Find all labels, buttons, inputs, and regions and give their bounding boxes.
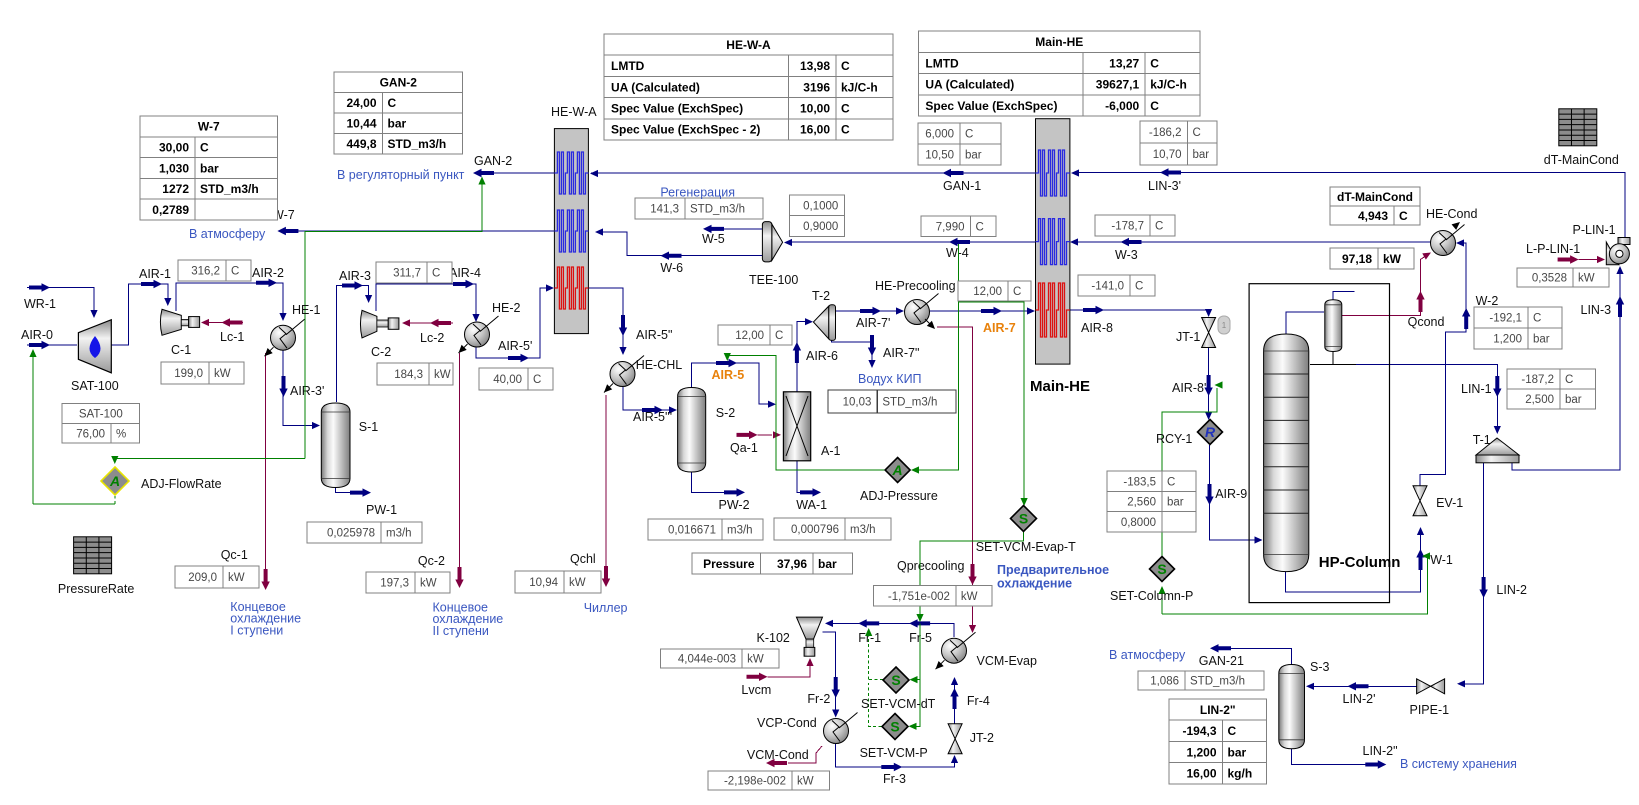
wire W-7 HE-W-A to atmosphere (287, 230, 554, 232)
table stream 12.00 C at precooling (958, 281, 1031, 301)
svg-text:4,044e-003: 4,044e-003 (678, 654, 736, 666)
table stream 311.7 C (376, 262, 452, 283)
svg-text:%: % (116, 428, 126, 440)
svg-text:C: C (1155, 221, 1163, 233)
svg-text:C: C (200, 141, 209, 155)
svg-text:C: C (965, 129, 973, 141)
tee TEE-100 (762, 222, 782, 262)
svg-text:S: S (1019, 511, 1028, 527)
wire W-2 EV-1 to HE-Cond (1420, 243, 1466, 487)
svg-text:LIN-2": LIN-2" (1200, 703, 1236, 717)
wire W-4 Main-HE to TEE-100 (786, 241, 1035, 243)
table stream -186.2 C 10.70 bar (1140, 121, 1217, 165)
svg-text:RCY-1: RCY-1 (1156, 432, 1192, 446)
table stream 316.2 C (178, 260, 251, 281)
svg-text:K-102: K-102 (757, 631, 790, 645)
table C-1 duty 199.0 kW (161, 362, 244, 384)
svg-text:L-P-LIN-1: L-P-LIN-1 (1526, 242, 1580, 256)
svg-text:PressureRate: PressureRate (58, 582, 134, 596)
table Qc-2 197.3 kW (366, 572, 450, 593)
svg-text:kJ/C-h: kJ/C-h (841, 80, 878, 94)
wire AIR-6 A-1 to T-2 (797, 322, 810, 392)
svg-text:WA-1: WA-1 (796, 498, 827, 512)
svg-text:1: 1 (1222, 321, 1227, 330)
table stream -178.7 C (1095, 215, 1175, 236)
energy stream Qc-1 from HE-1 (265, 353, 267, 572)
svg-text:HE-CHL: HE-CHL (636, 358, 683, 372)
svg-text:kW: kW (420, 578, 437, 590)
svg-text:AIR-5': AIR-5' (498, 339, 532, 353)
table regeneration 141.3 STD_m3/h (635, 198, 763, 219)
svg-text:16,00: 16,00 (1186, 767, 1216, 781)
svg-text:S-2: S-2 (716, 406, 736, 420)
adjust ADJ-Pressure (885, 458, 910, 483)
wire WR-1 into SAT-100 (27, 288, 94, 317)
svg-text:C: C (1150, 56, 1159, 70)
svg-text:dT-MainCond: dT-MainCond (1544, 153, 1619, 167)
svg-text:-194,3: -194,3 (1182, 724, 1216, 738)
svg-text:STD_m3/h: STD_m3/h (388, 137, 447, 151)
wire AIR-3 S-1 to C-2 (336, 286, 368, 403)
svg-text:AIR-7": AIR-7" (883, 346, 919, 360)
separator T-1 (1476, 438, 1519, 463)
svg-text:m3/h: m3/h (386, 527, 412, 539)
svg-text:C: C (1150, 99, 1159, 113)
evaporator VCM-Evap (942, 632, 976, 663)
svg-text:1,200: 1,200 (1186, 745, 1216, 759)
svg-text:0,9000: 0,9000 (803, 221, 838, 233)
column HP-Column box (1249, 284, 1389, 603)
svg-text:7,990: 7,990 (936, 221, 965, 233)
wire AIR-8-prime JT-1 to RCY-1 (1208, 348, 1210, 417)
table K-102 4.044e-003 kW (661, 649, 780, 668)
table Main-HE parameters (918, 31, 1200, 116)
svg-text:W-3: W-3 (1115, 248, 1138, 262)
svg-text:316,2: 316,2 (191, 266, 220, 278)
svg-text:TEE-100: TEE-100 (749, 273, 798, 287)
wire AIR-5-prime HE-2 to HE-W-A (476, 288, 551, 358)
signal SET-VCM-Evap-T connections (959, 302, 1024, 503)
signal ADJ-FlowRate to AIR-0 (32, 354, 34, 504)
table dT-MainCond 4.943 C (1330, 187, 1420, 225)
svg-text:AIR-3': AIR-3' (290, 384, 324, 398)
wire AIR-5 S-2 to A-1 (692, 363, 773, 404)
exchanger block Main-HE (1036, 119, 1070, 364)
svg-text:UA (Calculated): UA (Calculated) (925, 78, 1014, 92)
svg-text:AIR-9: AIR-9 (1215, 487, 1247, 501)
svg-text:I ступени: I ступени (230, 623, 283, 637)
table Qchl 10.94 kW (515, 571, 601, 593)
table HE-W-A parameters (604, 34, 893, 140)
svg-text:C: C (533, 374, 541, 386)
svg-text:13,27: 13,27 (1109, 56, 1139, 70)
svg-text:II ступени: II ступени (433, 624, 489, 638)
svg-text:Чиллер: Чиллер (584, 601, 628, 615)
svg-text:STD_m3/h: STD_m3/h (690, 204, 745, 216)
svg-text:-1,751e-002: -1,751e-002 (888, 591, 950, 603)
wire GAN-1 Main-HE to HE-W-A (591, 172, 1035, 174)
svg-text:C-2: C-2 (371, 345, 391, 359)
svg-text:SET-VCM-P: SET-VCM-P (860, 746, 928, 760)
svg-text:-192,1: -192,1 (1489, 313, 1522, 325)
svg-text:kW: kW (1383, 252, 1402, 266)
svg-text:C: C (976, 221, 984, 233)
svg-text:AIR-5''': AIR-5''' (633, 410, 672, 424)
svg-text:PW-2: PW-2 (719, 498, 750, 512)
table LIN-2-2prime (1169, 699, 1267, 784)
svg-text:kW: kW (214, 368, 231, 380)
svg-text:HE-W-A: HE-W-A (726, 38, 771, 52)
svg-text:C: C (841, 123, 850, 137)
svg-text:C: C (1565, 374, 1573, 386)
wire Fr VCM-Evap to K-102 (827, 623, 954, 637)
svg-text:AIR-4: AIR-4 (449, 266, 481, 280)
svg-text:W-5: W-5 (702, 232, 725, 246)
recycle RCY-1 (1198, 420, 1223, 445)
pump P-LIN-1 (1606, 238, 1630, 265)
svg-text:0,025978: 0,025978 (327, 527, 375, 539)
svg-text:kW: kW (961, 591, 978, 603)
table GAN-21 1.086 STD_m3/h (1138, 671, 1264, 690)
table WA-1 0.000796 m3/h (774, 518, 891, 540)
svg-text:40,00: 40,00 (493, 374, 522, 386)
wire LIN-3-prime P-LIN-1 to Main-HE (1073, 173, 1625, 241)
svg-text:W-2: W-2 (1476, 294, 1499, 308)
wire W-5 from TEE-100 (722, 228, 762, 230)
svg-text:STD_m3/h: STD_m3/h (882, 397, 937, 409)
svg-text:kW: kW (747, 654, 764, 666)
svg-text:-186,2: -186,2 (1149, 127, 1182, 139)
energy stream Qprecooling HE-Precooling to VCM-Evap (937, 327, 973, 628)
energy stream Lc-2 into C-2 (410, 322, 453, 324)
svg-text:STD_m3/h: STD_m3/h (200, 182, 259, 196)
svg-text:-187,2: -187,2 (1521, 374, 1554, 386)
svg-text:C: C (432, 268, 440, 280)
energy stream Qc-2 from HE-2 (459, 353, 461, 570)
svg-text:C: C (841, 102, 850, 116)
svg-text:VCP-Cond: VCP-Cond (757, 716, 817, 730)
adsorber A-1 (783, 392, 810, 461)
svg-text:LIN-2: LIN-2 (1496, 583, 1527, 597)
svg-text:W-4: W-4 (946, 246, 969, 260)
svg-text:-183,5: -183,5 (1123, 476, 1156, 488)
energy stream L-P-LIN-1 into P-LIN-1 (1579, 259, 1598, 261)
wire W-3 HE-Cond to Main-HE (1073, 241, 1431, 243)
wire AIR-5-2prime HE-W-A to HE-CHL (588, 288, 623, 352)
svg-text:kW: kW (569, 577, 586, 589)
wire AIR-7 HE-Precooling to Main-HE (930, 310, 1032, 312)
table P-LIN-1 0.3528 kW (1517, 268, 1609, 287)
svg-text:В атмосферу: В атмосферу (189, 227, 266, 241)
svg-text:AIR-5: AIR-5 (712, 368, 745, 382)
table stream 12.00 C at A-1 (718, 325, 792, 345)
wire Fr-2 K-102 to VCP-Cond (823, 632, 836, 715)
svg-text:kg/h: kg/h (1228, 767, 1253, 781)
signal SET-Column-P connections (1162, 556, 1427, 614)
heat exchanger HE-2 (465, 316, 499, 347)
wire PW-1 from S-1 (336, 488, 351, 493)
svg-text:S-3: S-3 (1310, 660, 1330, 674)
table W-2 -192.1 C 1.200 bar (1474, 307, 1562, 349)
table HE-Cond duty 97.18 kW (1330, 248, 1414, 269)
svg-text:HE-Precooling: HE-Precooling (875, 279, 956, 293)
svg-text:6,000: 6,000 (925, 129, 954, 141)
svg-text:HE-2: HE-2 (492, 301, 521, 315)
svg-text:В систему хранения: В систему хранения (1400, 757, 1517, 771)
svg-text:Qprecooling: Qprecooling (897, 559, 964, 573)
svg-text:HE-Cond: HE-Cond (1426, 207, 1477, 221)
svg-text:197,3: 197,3 (380, 578, 409, 590)
wire LIN-2-prime PIPE-1 to S-3 (1308, 685, 1416, 687)
svg-text:4,943: 4,943 (1358, 209, 1388, 223)
svg-text:12,00: 12,00 (735, 330, 764, 342)
table LIN-1 -187.2 C 2.500 bar (1507, 369, 1596, 409)
wire LIN-2 T-1 to PIPE-1 (1459, 463, 1484, 684)
svg-text:охлаждение: охлаждение (997, 577, 1072, 591)
svg-text:C: C (1399, 209, 1408, 223)
svg-text:C: C (1135, 281, 1143, 293)
svg-text:W-1: W-1 (1430, 553, 1453, 567)
svg-text:S-1: S-1 (359, 420, 379, 434)
svg-text:Qchl: Qchl (570, 552, 596, 566)
set SET-VCM-P (882, 714, 908, 740)
svg-text:SAT-100: SAT-100 (71, 379, 119, 393)
table W-7 (140, 116, 278, 220)
svg-text:AIR-0: AIR-0 (21, 328, 53, 342)
svg-text:A: A (892, 462, 903, 478)
svg-text:10,50: 10,50 (925, 150, 954, 162)
svg-text:39627,1: 39627,1 (1096, 78, 1140, 92)
svg-text:1,086: 1,086 (1150, 676, 1179, 688)
table C-2 duty 184.3 kW (377, 363, 453, 385)
wire HP-Column overhead to condenser (1286, 312, 1324, 337)
svg-text:ADJ-FlowRate: ADJ-FlowRate (141, 477, 222, 491)
cooler HE-Precooling (905, 294, 939, 325)
svg-text:kW: kW (797, 776, 814, 788)
wire condenser top stub (1333, 292, 1354, 301)
svg-text:AIR-5": AIR-5" (636, 328, 672, 342)
svg-text:24,00: 24,00 (346, 96, 376, 110)
svg-text:16,00: 16,00 (800, 123, 830, 137)
svg-text:PW-1: PW-1 (366, 503, 397, 517)
svg-text:76,00: 76,00 (76, 428, 105, 440)
datatable icon PressureRate (74, 537, 112, 574)
svg-text:HE-W-A: HE-W-A (551, 105, 597, 119)
svg-text:C: C (231, 266, 239, 278)
svg-text:WR-1: WR-1 (24, 297, 56, 311)
column HP-Column vessel (1264, 334, 1309, 572)
svg-text:ADJ-Pressure: ADJ-Pressure (860, 489, 938, 503)
wire GAN-2 from HE-W-A (492, 172, 554, 174)
svg-text:Spec Value (ExchSpec): Spec Value (ExchSpec) (925, 99, 1057, 113)
svg-text:P-LIN-1: P-LIN-1 (1573, 223, 1616, 237)
svg-text:199,0: 199,0 (174, 368, 203, 380)
svg-text:VCM-Evap: VCM-Evap (977, 654, 1037, 668)
wire LIN-2-2prime from S-3 to storage (1292, 749, 1367, 765)
svg-text:AIR-7': AIR-7' (856, 316, 890, 330)
svg-text:bar: bar (1193, 149, 1210, 161)
svg-text:AIR-8: AIR-8 (1081, 321, 1113, 335)
energy stream Qa-1 into A-1 (758, 434, 773, 436)
svg-text:LMTD: LMTD (611, 59, 645, 73)
svg-text:W-7: W-7 (198, 120, 220, 134)
valve JT-2 (948, 724, 962, 754)
wire AIR-1 SAT-100 to C-1 (111, 284, 168, 345)
svg-text:0,000796: 0,000796 (791, 524, 839, 536)
svg-text:LMTD: LMTD (925, 56, 959, 70)
svg-text:10,70: 10,70 (1153, 149, 1182, 161)
svg-text:C: C (1533, 313, 1541, 325)
wire condenser bottom black stub (1332, 352, 1334, 365)
svg-text:T-1: T-1 (1473, 433, 1491, 447)
svg-text:bar: bar (1533, 334, 1550, 346)
energy stream Qcond condenser to HE-Cond (1342, 255, 1427, 315)
wire LIN-3 T-1 to P-LIN-1 (1512, 269, 1620, 470)
adjust ADJ-FlowRate (101, 467, 129, 495)
svg-text:Предварительное: Предварительное (997, 563, 1109, 577)
svg-text:EV-1: EV-1 (1436, 496, 1463, 510)
svg-text:10,94: 10,94 (529, 577, 558, 589)
svg-text:В регуляторный пункт: В регуляторный пункт (337, 168, 465, 182)
svg-text:S: S (890, 719, 899, 735)
svg-text:12,00: 12,00 (973, 286, 1002, 298)
wire Fr-4 JT-2 to VCM-Evap (954, 680, 956, 724)
table VCM-Cond -2.198e-002 kW (708, 771, 829, 790)
table stream 40.00 C (479, 368, 553, 390)
svg-text:10,03: 10,03 (843, 397, 872, 409)
svg-text:GAN-21: GAN-21 (1199, 654, 1244, 668)
set SET-VCM-dT (883, 667, 909, 693)
exchanger block HE-W-A (554, 129, 588, 334)
svg-text:Lc-2: Lc-2 (420, 331, 444, 345)
svg-text:Fr-2: Fr-2 (807, 692, 830, 706)
signal SET-VCM-dT connections (911, 623, 920, 679)
svg-text:10,44: 10,44 (346, 117, 376, 131)
svg-text:Регенерация: Регенерация (660, 186, 735, 200)
svg-text:-141,0: -141,0 (1091, 281, 1124, 293)
wire AIR-3-prime HE-1 to S-1 (283, 350, 317, 426)
valve PIPE-1 (1417, 679, 1445, 694)
condenser drum inside HP-Column (1325, 300, 1342, 352)
compressor K-102 (796, 617, 822, 656)
svg-text:GAN-2: GAN-2 (474, 154, 512, 168)
svg-text:Pressure: Pressure (703, 557, 755, 571)
svg-text:LIN-3': LIN-3' (1148, 179, 1181, 193)
table stream -141.0 C (1078, 275, 1155, 296)
svg-text:AIR-1: AIR-1 (139, 267, 171, 281)
svg-text:PIPE-1: PIPE-1 (1410, 703, 1450, 717)
svg-text:10,00: 10,00 (800, 102, 830, 116)
svg-text:3196: 3196 (803, 80, 830, 94)
wire AIR-2 C-1 to HE-1 (176, 283, 283, 318)
svg-text:0,016671: 0,016671 (668, 525, 716, 537)
wire Fr-3 VCP-Cond to JT-2 (836, 744, 955, 767)
svg-text:В атмосферу: В атмосферу (1109, 648, 1186, 662)
chiller HE-CHL (610, 356, 644, 387)
svg-text:S: S (891, 672, 900, 688)
svg-text:1272: 1272 (162, 182, 189, 196)
svg-text:0,8000: 0,8000 (1121, 517, 1156, 529)
svg-text:UA (Calculated): UA (Calculated) (611, 80, 700, 94)
svg-text:Fr-5: Fr-5 (909, 631, 932, 645)
svg-text:C: C (1167, 476, 1175, 488)
svg-text:A-1: A-1 (821, 444, 841, 458)
svg-text:T-2: T-2 (812, 289, 830, 303)
compressor C-2 (360, 310, 398, 338)
svg-text:0,1000: 0,1000 (803, 200, 838, 212)
table PW-1 0.025978 m3/h (307, 522, 422, 543)
svg-text:bar: bar (1228, 745, 1247, 759)
svg-text:A: A (109, 473, 120, 489)
wire WA-1 from A-1 (797, 461, 800, 493)
svg-text:Qc-2: Qc-2 (418, 554, 445, 568)
svg-text:-2,198e-002: -2,198e-002 (724, 776, 786, 788)
svg-text:Qa-1: Qa-1 (730, 441, 758, 455)
svg-text:37,96: 37,96 (777, 557, 807, 571)
svg-text:kJ/C-h: kJ/C-h (1150, 78, 1187, 92)
energy stream Qchl from HE-CHL (605, 395, 607, 569)
wire GAN-21 from S-3 (1229, 648, 1292, 664)
svg-text:C-1: C-1 (171, 343, 191, 357)
svg-text:-178,7: -178,7 (1111, 221, 1144, 233)
svg-text:C: C (388, 96, 397, 110)
svg-text:JT-1: JT-1 (1176, 330, 1200, 344)
svg-text:Main-HE: Main-HE (1035, 35, 1083, 49)
table GAN-2 (334, 72, 463, 154)
svg-text:AIR-6: AIR-6 (806, 349, 838, 363)
table stream 6.000 C 10.50 bar (918, 123, 1001, 165)
svg-text:Водух КИП: Водух КИП (858, 372, 922, 386)
svg-text:S: S (1157, 561, 1166, 577)
svg-text:bar: bar (388, 117, 407, 131)
separator S-1 (321, 403, 350, 488)
table PW-2 0.016671 m3/h (648, 519, 763, 540)
svg-text:bar: bar (818, 557, 837, 571)
tee T-2 (813, 305, 835, 341)
logical capsule near JT-1 (1218, 316, 1230, 334)
svg-text:0,2789: 0,2789 (152, 203, 189, 217)
svg-text:m3/h: m3/h (727, 525, 753, 537)
svg-text:Lc-1: Lc-1 (220, 330, 244, 344)
table Qprecooling -1.751e-002 kW (873, 586, 992, 607)
separator S-2 (678, 388, 706, 473)
svg-text:SET-VCM-dT: SET-VCM-dT (861, 697, 936, 711)
wire AIR-5-3prime HE-CHL to S-2 (623, 387, 674, 410)
svg-text:C: C (841, 59, 850, 73)
svg-text:LIN-2': LIN-2' (1343, 692, 1376, 706)
svg-text:Spec Value (ExchSpec): Spec Value (ExchSpec) (611, 102, 743, 116)
svg-text:kW: kW (434, 369, 451, 381)
wire AIR-0 into SAT-100 (27, 344, 77, 346)
svg-text:LIN-1: LIN-1 (1461, 382, 1492, 396)
set SET-VCM-Evap-T (1011, 506, 1037, 532)
energy stream Lc-1 into C-1 (209, 322, 243, 324)
svg-text:SAT-100: SAT-100 (79, 409, 123, 421)
condenser VCP-Cond (824, 713, 858, 744)
valve JT-1 (1202, 318, 1216, 348)
svg-text:AIR-3: AIR-3 (339, 269, 371, 283)
svg-text:209,0: 209,0 (188, 572, 217, 584)
svg-text:Fr-4: Fr-4 (967, 694, 990, 708)
svg-text:C: C (1193, 127, 1201, 139)
svg-text:SET-Column-P: SET-Column-P (1110, 589, 1193, 603)
wire AIR-7-2prime from T-2 (832, 340, 873, 365)
svg-text:1,200: 1,200 (1493, 334, 1522, 346)
wire PW-2 from S-2 (692, 472, 724, 492)
svg-text:bar: bar (1565, 394, 1582, 406)
svg-text:Lvcm: Lvcm (741, 683, 771, 697)
wire AIR-7-prime T-2 to HE-Precooling (836, 310, 902, 312)
